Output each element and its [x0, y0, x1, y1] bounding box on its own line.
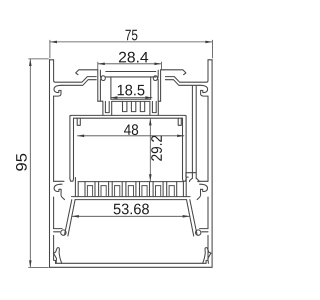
wire chamber wall inner fin left [77, 118, 80, 125]
node trough outer wall right [160, 70, 162, 101]
node dim text 18.5 [118, 85, 145, 96]
wire left wall inner edge bottom [54, 235, 56, 263]
wire chamber wall inner fin right [178, 118, 181, 125]
wire bracket step left under trough [98, 101, 103, 115]
wire left wall inner edge upper [54, 60, 97, 82]
node dim text 29.2 [151, 136, 162, 161]
wire left wall inner edge upper [165, 60, 208, 82]
wire bottom plate bottom edge [50, 266, 213, 268]
wire comb tooth 2 [99, 182, 109, 197]
wire mini fin 3 under trough floor [140, 101, 144, 111]
capacitor-like screw curl lower-left (S-curl) [54, 184, 64, 199]
wire left wall inner edge mid [207, 96, 209, 181]
node dim text 28.4 [119, 52, 148, 63]
wire chamber wall right [185, 116, 187, 179]
wire dim 48 line [77, 135, 184, 137]
wire left wall top edge [50, 59, 54, 61]
wire comb tooth 3 [112, 182, 122, 197]
wire dim 29.2 line [149, 118, 151, 181]
wire left wall inner edge lower [207, 197, 209, 229]
wire comb shelf left column [185, 178, 187, 197]
wire dim 75 extension lines [49, 40, 51, 58]
wire mini fin 1 under trough floor [123, 101, 127, 111]
wire dim 28.4 line [98, 63, 162, 65]
wire comb tooth 1 [85, 182, 95, 197]
capacitor-like diffuser curl left in trough [100, 70, 105, 80]
node dim text 48 [124, 124, 138, 135]
wire trough inner wall left [150, 77, 152, 99]
wire trough floor bottom [112, 100, 150, 102]
wire top wing web bottom edge [62, 80, 96, 86]
wire bracket left inner face [149, 101, 151, 115]
wire comb shelf top [72, 196, 191, 198]
wire lower web stub on left wall [54, 180, 64, 182]
wire comb shelf left column [74, 178, 76, 197]
capacitor-like diffuser curl right in trough [153, 70, 158, 80]
node dim text 95 [16, 154, 27, 171]
wire lower web stub on left wall [198, 180, 208, 182]
wire outer-left-wall outer edge [211, 60, 213, 267]
wire lower stub web to strut boss [200, 228, 208, 230]
wire trough inner wall left [110, 77, 112, 99]
wire comb shelf bottom [75, 199, 187, 201]
wire dim 95 line [29, 59, 31, 268]
wire right internal partition wall left face [191, 86, 193, 178]
node screw boss ring left [61, 230, 66, 235]
wire trough lower ledge [105, 76, 156, 78]
wire left wall top edge [208, 59, 212, 61]
wire lower stub web to strut boss [54, 228, 62, 230]
wire comb tooth 4 [126, 182, 136, 197]
capacitor-like screw curl on upper web (S-curl) [200, 85, 208, 96]
capacitor-like screw curl on upper web (S-curl) [54, 85, 62, 96]
wire dim 28.4 extension lines [97, 62, 99, 70]
wire left wall inner edge bottom [206, 235, 208, 263]
transistor-like spring clip right on bottom plate [203, 248, 211, 264]
wire top wing lip with beak [164, 70, 186, 75]
right half of extrusion (mirror) [150, 60, 212, 267]
wire outer-left-wall outer edge [49, 60, 51, 267]
wire comb tooth 7 [167, 182, 177, 197]
wire dim 75 line [50, 41, 213, 43]
wire trough outer wall right inner face [157, 80, 159, 102]
wire chamber wall right foot [183, 179, 187, 181]
node dim text 53.68 [114, 204, 149, 215]
capacitor-like screw curl lower-left (S-curl) [197, 184, 207, 199]
wire trough floor top [111, 98, 151, 100]
transistor-like spring clip left on bottom plate [53, 248, 61, 264]
wire top wing web bottom edge [165, 80, 199, 86]
wire top wing lip with beak [76, 70, 98, 75]
wire comb tooth 6 [153, 182, 163, 197]
wire diagonal strut left [190, 200, 197, 235]
wire dim 18.5 line [110, 97, 152, 99]
node trough outer wall left [97, 70, 99, 101]
node dim text 75 [125, 30, 137, 41]
wire right lip patch [161, 69, 164, 71]
wire left wall inner edge lower [53, 197, 55, 229]
wire chamber ceiling top [71, 114, 185, 116]
wire chamber wall left [69, 116, 71, 179]
node screw boss ring left [196, 230, 201, 235]
wire right internal partition wall right face [195, 86, 197, 178]
wire bracket step right under trough [158, 101, 160, 115]
wire bottom plate top edge [56, 262, 207, 264]
wire chamber ceiling bottom [74, 117, 183, 119]
wire left wall inner edge mid [53, 96, 55, 181]
wire partition cup hook [186, 173, 196, 177]
wire comb top line [78, 181, 183, 183]
wire diagonal strut left [65, 200, 72, 235]
wire dim 53.68 line [72, 215, 190, 217]
wire comb tooth 5 [140, 182, 150, 197]
wire partition foot flare [190, 178, 199, 182]
wire dim 95 extension lines [28, 58, 48, 60]
wire trough outer wall left inner face [99, 80, 101, 102]
wire bracket left inner face [111, 101, 113, 115]
wire trough upper ledge [105, 71, 156, 73]
wire mini fin 2 under trough floor [131, 101, 135, 111]
left half of extrusion [50, 60, 112, 267]
wire chamber wall left foot [70, 179, 74, 181]
